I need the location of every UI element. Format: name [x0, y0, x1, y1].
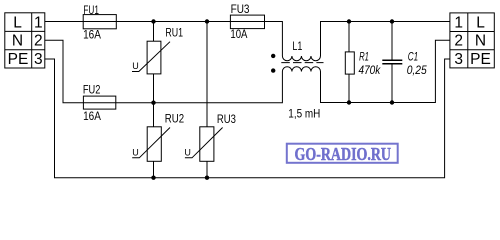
fuse FU3 — [230, 15, 264, 29]
wire N line: left block terminal 2 down, through FU2 to L1 bottom winding left — [45, 40, 283, 102]
junction node: C1 top — [390, 19, 394, 23]
svg-text:FU2: FU2 — [83, 82, 101, 96]
svg-text:3: 3 — [454, 51, 463, 68]
svg-text:16A: 16A — [83, 28, 101, 42]
terminal block right — [450, 13, 494, 68]
polarity dot top winding — [271, 54, 275, 58]
wire L line right: L1 top winding right end up and to right block terminal 1 — [321, 22, 450, 57]
resistor R1 — [345, 52, 381, 77]
svg-text:L: L — [476, 14, 485, 31]
wire PE bottom rail: left block terminal 3 down along bottom to right block terminal 3 — [45, 59, 450, 178]
wire C1 branch top — [391, 22, 393, 61]
wire L line: left block to FU1,FU3, down to L1 top winding — [45, 22, 283, 57]
svg-text:RU1: RU1 — [165, 26, 183, 40]
svg-text:R1: R1 — [359, 52, 369, 64]
capacitor C1 — [382, 52, 427, 78]
varistor RU2 — [132, 111, 184, 161]
wire R1 branch — [348, 22, 350, 103]
terminal block left — [5, 13, 45, 68]
fuse FU1 — [83, 15, 116, 29]
svg-text:U: U — [132, 147, 139, 157]
svg-text:1: 1 — [34, 14, 43, 31]
svg-text:PE: PE — [470, 51, 491, 68]
inductor L1 bottom winding — [282, 67, 320, 72]
svg-text:1,5 mH: 1,5 mH — [288, 106, 320, 120]
svg-text:U: U — [132, 61, 139, 71]
varistor RU1 — [132, 26, 183, 74]
svg-text:470k: 470k — [359, 65, 382, 77]
svg-text:L1: L1 — [292, 41, 302, 53]
svg-text:16A: 16A — [83, 109, 101, 123]
svg-text:GO-RADIO.RU: GO-RADIO.RU — [295, 144, 392, 164]
polarity dot bottom winding — [271, 68, 275, 72]
svg-text:FU1: FU1 — [83, 3, 99, 17]
fuse FU2 — [83, 96, 115, 109]
svg-text:L: L — [13, 14, 22, 31]
svg-text:1: 1 — [454, 14, 463, 31]
svg-text:10A: 10A — [230, 27, 247, 41]
wire RU1-RU2 vertical branch — [153, 22, 155, 178]
inductor L1 common-mode choke top winding — [282, 56, 320, 61]
svg-text:U: U — [184, 147, 191, 157]
go-radio.ru watermark logo — [287, 144, 398, 165]
junction node: C1 bottom — [390, 100, 394, 104]
svg-text:RU2: RU2 — [165, 111, 185, 125]
junction node: RU2 bottom on PE rail — [151, 176, 155, 180]
wire RU3 vertical branch — [206, 22, 208, 178]
varistor RU3 — [184, 112, 236, 161]
inductor L1 core dashed line — [281, 62, 323, 64]
svg-text:N: N — [475, 33, 486, 50]
junction node: RU1/RU2 on N line — [151, 101, 155, 105]
svg-text:C1: C1 — [408, 52, 418, 64]
svg-text:2: 2 — [34, 33, 43, 50]
svg-text:2: 2 — [454, 33, 463, 50]
svg-text:RU3: RU3 — [217, 112, 236, 126]
svg-text:N: N — [12, 33, 23, 50]
wire N line right: L1 bottom winding right end down, right, up to right block terminal 2 — [321, 40, 450, 102]
junction node: RU1 top on L line — [151, 19, 155, 23]
junction node: RU3 top on L line — [205, 19, 209, 23]
junction node: R1 bottom — [347, 100, 351, 104]
wire C1 branch bottom — [391, 64, 393, 103]
svg-text:PE: PE — [8, 51, 29, 68]
svg-text:0,25: 0,25 — [407, 65, 428, 77]
junction node: RU3 bottom on PE rail — [205, 176, 209, 180]
junction node: R1 top — [347, 19, 351, 23]
svg-text:FU3: FU3 — [231, 2, 250, 16]
svg-text:3: 3 — [34, 51, 43, 68]
